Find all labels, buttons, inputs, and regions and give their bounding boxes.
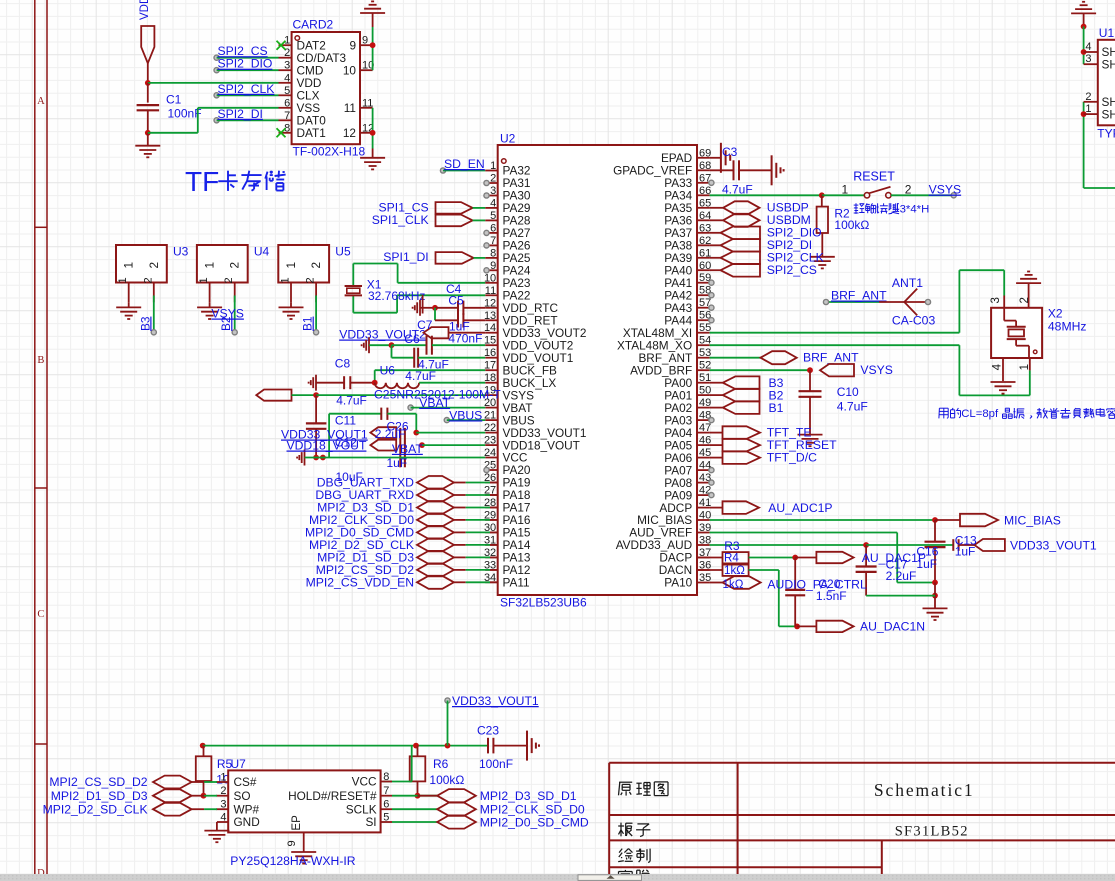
svg-text:SI: SI [365, 815, 376, 829]
svg-text:3: 3 [990, 297, 1002, 303]
svg-text:65: 65 [699, 197, 711, 209]
svg-text:1kΩ: 1kΩ [724, 564, 745, 577]
svg-text:51: 51 [699, 372, 711, 384]
svg-text:C11: C11 [335, 413, 356, 427]
svg-text:VSYS: VSYS [929, 183, 962, 197]
svg-text:4: 4 [1085, 41, 1091, 53]
svg-text:SPI2_DIO: SPI2_DIO [218, 57, 273, 71]
svg-text:64: 64 [699, 210, 711, 222]
svg-text:GND: GND [234, 815, 260, 829]
svg-text:MPI2_D3_SD_D1: MPI2_D3_SD_D1 [480, 789, 577, 803]
svg-text:R4: R4 [724, 551, 739, 564]
svg-text:1: 1 [1019, 364, 1031, 370]
svg-text:U2: U2 [500, 132, 516, 146]
svg-text:11: 11 [344, 101, 356, 115]
svg-text:1: 1 [284, 262, 298, 269]
svg-text:CA-C03: CA-C03 [892, 314, 936, 328]
svg-text:PY25Q128HA-WXH-IR: PY25Q128HA-WXH-IR [230, 854, 355, 868]
svg-text:6: 6 [490, 222, 496, 234]
svg-text:VBAT: VBAT [419, 396, 450, 410]
svg-text:62: 62 [699, 235, 711, 247]
svg-text:55: 55 [699, 322, 711, 334]
svg-text:VDD: VDD [139, 0, 151, 20]
svg-text:47: 47 [699, 422, 711, 434]
svg-text:1: 1 [490, 160, 496, 172]
svg-text:C10: C10 [837, 385, 859, 399]
svg-text:1: 1 [203, 262, 217, 269]
svg-text:C7: C7 [417, 318, 433, 332]
svg-text:VBAT: VBAT [392, 442, 423, 456]
svg-text:7: 7 [284, 110, 290, 122]
svg-text:1: 1 [117, 277, 129, 283]
svg-text:69: 69 [699, 147, 711, 159]
svg-text:4.7uF: 4.7uF [722, 183, 753, 197]
svg-text:VSYS: VSYS [860, 363, 893, 377]
svg-text:2: 2 [223, 277, 235, 283]
svg-text:U3: U3 [173, 245, 189, 259]
svg-text:MPI2_D1_SD_D3: MPI2_D1_SD_D3 [51, 789, 148, 803]
svg-text:18: 18 [484, 372, 496, 384]
svg-text:50: 50 [699, 385, 711, 397]
svg-text:R3: R3 [724, 539, 740, 553]
svg-text:B1: B1 [301, 317, 315, 331]
svg-text:60: 60 [699, 260, 711, 272]
svg-text:AU_DAC1P: AU_DAC1P [862, 551, 926, 565]
svg-text:4.7uF: 4.7uF [405, 369, 436, 383]
svg-text:R6: R6 [433, 757, 449, 771]
svg-text:C3: C3 [722, 145, 738, 159]
svg-text:8: 8 [490, 247, 496, 259]
svg-text:9: 9 [490, 260, 496, 272]
svg-text:A: A [37, 96, 45, 107]
svg-text:HOLD#/RESET#: HOLD#/RESET# [288, 789, 377, 803]
svg-text:3*4*H: 3*4*H [900, 204, 930, 216]
svg-text:CL=8pf: CL=8pf [961, 408, 999, 420]
svg-text:CS#: CS# [234, 775, 257, 789]
svg-text:41: 41 [699, 497, 711, 509]
svg-text:MPI2_D0_SD_CMD: MPI2_D0_SD_CMD [480, 815, 589, 829]
svg-text:SD_EN: SD_EN [444, 157, 485, 171]
svg-text:61: 61 [699, 247, 711, 259]
svg-text:C8: C8 [335, 357, 351, 371]
svg-text:TFT_D/C: TFT_D/C [767, 450, 817, 464]
svg-text:U7: U7 [231, 757, 247, 771]
svg-text:RESET: RESET [853, 170, 895, 184]
svg-text:U1: U1 [1099, 26, 1115, 40]
svg-text:1uF: 1uF [955, 545, 976, 559]
svg-text:2: 2 [228, 262, 242, 269]
svg-text:SF32LB523UB6: SF32LB523UB6 [500, 596, 587, 610]
svg-text:3: 3 [1085, 53, 1091, 65]
svg-text:AUDIO_PA_CTRL: AUDIO_PA_CTRL [767, 577, 867, 591]
svg-text:100kΩ: 100kΩ [429, 773, 464, 787]
svg-text:1: 1 [198, 277, 210, 283]
svg-text:46: 46 [699, 435, 711, 447]
svg-text:16: 16 [484, 347, 496, 359]
svg-text:DAT1: DAT1 [297, 126, 326, 140]
svg-text:17: 17 [484, 360, 496, 372]
svg-text:12: 12 [484, 297, 496, 309]
svg-text:3: 3 [490, 185, 496, 197]
svg-text:C26: C26 [387, 420, 409, 434]
svg-text:AU_ADC1P: AU_ADC1P [768, 501, 832, 515]
svg-text:VBUS: VBUS [449, 408, 482, 422]
svg-text:10: 10 [343, 63, 357, 77]
svg-text:4.7uF: 4.7uF [837, 400, 868, 414]
svg-text:VCC: VCC [352, 775, 377, 789]
svg-text:C1: C1 [166, 93, 182, 107]
svg-text:SH: SH [1102, 57, 1115, 71]
svg-text:EP: EP [291, 815, 303, 831]
svg-text:4: 4 [490, 197, 496, 209]
svg-text:68: 68 [699, 160, 711, 172]
svg-text:SPI2_CLK: SPI2_CLK [218, 82, 275, 96]
svg-text:10: 10 [484, 272, 496, 284]
svg-text:35: 35 [699, 572, 711, 584]
svg-text:100kΩ: 100kΩ [834, 218, 869, 232]
svg-text:11: 11 [362, 97, 373, 109]
svg-text:TYP: TYP [1097, 127, 1115, 141]
svg-text:24: 24 [484, 447, 496, 459]
svg-text:C23: C23 [477, 724, 499, 738]
svg-text:39: 39 [699, 522, 711, 534]
svg-text:B3: B3 [138, 316, 152, 331]
svg-text:C6: C6 [404, 332, 420, 346]
svg-text:45: 45 [699, 447, 711, 459]
svg-text:63: 63 [699, 222, 711, 234]
svg-text:6: 6 [284, 97, 290, 109]
svg-text:2: 2 [1085, 91, 1091, 103]
svg-text:BRF_ANT: BRF_ANT [831, 289, 887, 303]
svg-text:U5: U5 [335, 245, 351, 259]
svg-text:SH: SH [1102, 107, 1115, 121]
svg-text:C5: C5 [448, 294, 464, 308]
svg-text:2: 2 [1019, 297, 1031, 303]
svg-text:49: 49 [699, 397, 711, 409]
svg-text:40: 40 [699, 510, 711, 522]
svg-text:15: 15 [484, 335, 496, 347]
svg-text:12: 12 [343, 126, 356, 140]
svg-text:4: 4 [284, 72, 290, 84]
svg-text:4: 4 [992, 363, 1004, 370]
svg-text:21: 21 [484, 410, 496, 422]
svg-text:U6: U6 [380, 364, 396, 378]
svg-text:1: 1 [842, 182, 849, 196]
svg-text:MPI2_CS_VDD_EN: MPI2_CS_VDD_EN [306, 575, 414, 589]
svg-text:48MHz: 48MHz [1048, 320, 1087, 334]
svg-text:PA10: PA10 [664, 576, 692, 590]
svg-text:AU_DAC1N: AU_DAC1N [860, 620, 925, 634]
svg-text:1: 1 [1085, 103, 1091, 115]
svg-text:VDD18_VOUT: VDD18_VOUT [287, 439, 367, 453]
svg-text:3: 3 [284, 60, 290, 72]
svg-text:13: 13 [484, 310, 496, 322]
svg-text:CARD2: CARD2 [293, 18, 334, 32]
svg-text:100nF: 100nF [479, 757, 513, 771]
svg-text:VDD33_VOUT1: VDD33_VOUT1 [1010, 539, 1097, 553]
svg-text:SPI2_CS: SPI2_CS [767, 263, 817, 277]
svg-text:C: C [37, 609, 44, 620]
svg-text:MIC_BIAS: MIC_BIAS [1004, 514, 1061, 528]
svg-text:23: 23 [484, 435, 496, 447]
svg-text:SO: SO [234, 789, 251, 803]
svg-text:38: 38 [699, 535, 711, 547]
svg-text:22: 22 [484, 422, 496, 434]
svg-text:7: 7 [490, 235, 496, 247]
svg-text:2: 2 [490, 173, 496, 185]
svg-text:B: B [37, 355, 44, 366]
svg-text:14: 14 [484, 322, 496, 334]
svg-text:TF-002X-H18: TF-002X-H18 [293, 145, 366, 159]
svg-text:32.768kHz: 32.768kHz [368, 289, 425, 303]
svg-text:5: 5 [284, 85, 290, 97]
svg-text:2: 2 [147, 262, 161, 269]
svg-text:2: 2 [305, 277, 317, 283]
svg-text:52: 52 [699, 360, 711, 372]
svg-text:MPI2_CS_SD_D2: MPI2_CS_SD_D2 [49, 775, 147, 789]
svg-text:SPI1_DI: SPI1_DI [383, 250, 428, 264]
svg-text:MPI2_D2_SD_CLK: MPI2_D2_SD_CLK [43, 802, 148, 816]
svg-text:Schematic1: Schematic1 [874, 780, 975, 800]
svg-text:SPI2_DI: SPI2_DI [218, 107, 263, 121]
svg-text:1: 1 [122, 262, 136, 269]
svg-text:PA11: PA11 [503, 576, 530, 590]
svg-text:C20: C20 [818, 577, 840, 591]
svg-text:1uF: 1uF [387, 456, 408, 470]
svg-text:11: 11 [485, 285, 496, 297]
svg-text:SPI1_CLK: SPI1_CLK [372, 213, 429, 227]
svg-text:5: 5 [490, 210, 496, 222]
svg-text:ANT1: ANT1 [892, 276, 923, 290]
svg-text:53: 53 [699, 347, 711, 359]
svg-text:100nF: 100nF [168, 107, 202, 121]
svg-text:66: 66 [699, 185, 711, 197]
svg-text:BRF_ANT: BRF_ANT [803, 351, 859, 365]
svg-text:VDD33_VOUT1: VDD33_VOUT1 [452, 694, 539, 708]
svg-text:54: 54 [699, 335, 711, 347]
svg-text:9: 9 [349, 38, 356, 52]
svg-text:B1: B1 [769, 401, 784, 415]
svg-text:1kΩ: 1kΩ [723, 578, 744, 591]
svg-text:SF31LB52: SF31LB52 [895, 824, 969, 840]
svg-text:9: 9 [362, 35, 368, 47]
svg-text:1: 1 [280, 277, 292, 283]
svg-text:9: 9 [286, 840, 298, 846]
svg-text:VSYS: VSYS [211, 307, 244, 321]
svg-text:U4: U4 [254, 245, 270, 259]
svg-text:2.2uF: 2.2uF [886, 569, 917, 583]
svg-text:2: 2 [905, 182, 912, 196]
svg-text:2: 2 [309, 262, 323, 269]
svg-text:TF: TF [185, 166, 219, 197]
svg-text:2: 2 [142, 277, 154, 283]
